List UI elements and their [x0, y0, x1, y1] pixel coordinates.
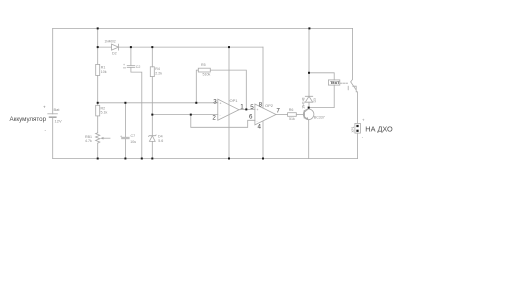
svg-text:7: 7 — [276, 108, 280, 115]
svg-text:+: + — [257, 108, 259, 112]
svg-text:+: + — [123, 63, 125, 67]
svg-text:1N4002: 1N4002 — [105, 40, 116, 44]
svg-text:51k: 51k — [289, 117, 295, 121]
svg-text:C2: C2 — [136, 65, 141, 69]
svg-text:-: - — [257, 119, 258, 123]
svg-text:2: 2 — [212, 115, 216, 122]
svg-text:2.2k: 2.2k — [155, 72, 162, 76]
svg-text:-: - — [220, 113, 221, 117]
svg-text:Аккумулятор: Аккумулятор — [10, 116, 47, 123]
svg-text:+: + — [220, 101, 222, 105]
svg-text:12V: 12V — [55, 119, 62, 124]
svg-text:XP1: XP1 — [351, 126, 355, 132]
svg-text:НА ДХО: НА ДХО — [365, 124, 393, 133]
svg-text:4: 4 — [258, 124, 262, 131]
svg-text:+: + — [43, 105, 46, 110]
svg-text:6: 6 — [249, 114, 253, 121]
svg-text:5.6: 5.6 — [158, 139, 163, 143]
svg-text:D3: D3 — [313, 98, 317, 102]
svg-text:+: + — [362, 118, 365, 123]
svg-text:3: 3 — [213, 98, 217, 105]
svg-text:TEXT: TEXT — [330, 81, 340, 85]
svg-text:5.1k: 5.1k — [101, 111, 108, 115]
svg-text:1N4148: 1N4148 — [302, 97, 306, 108]
svg-text:10u: 10u — [130, 140, 136, 144]
svg-text:R6: R6 — [289, 108, 294, 112]
svg-text:OP2: OP2 — [265, 103, 274, 108]
svg-text:10k: 10k — [101, 70, 107, 74]
svg-text:BC337: BC337 — [314, 116, 325, 120]
svg-text:Bat: Bat — [54, 107, 61, 112]
svg-text:8: 8 — [259, 101, 263, 108]
svg-text:1: 1 — [240, 104, 244, 111]
svg-text:4.7k: 4.7k — [85, 139, 92, 143]
svg-text:OP1: OP1 — [230, 98, 239, 103]
svg-text:C7: C7 — [131, 134, 136, 138]
svg-text:D2: D2 — [112, 52, 117, 56]
svg-text:510k: 510k — [203, 73, 211, 77]
svg-text:5: 5 — [250, 104, 254, 111]
svg-text:R5: R5 — [201, 63, 206, 67]
svg-text:D4: D4 — [158, 134, 163, 138]
svg-text:+: + — [120, 135, 122, 139]
